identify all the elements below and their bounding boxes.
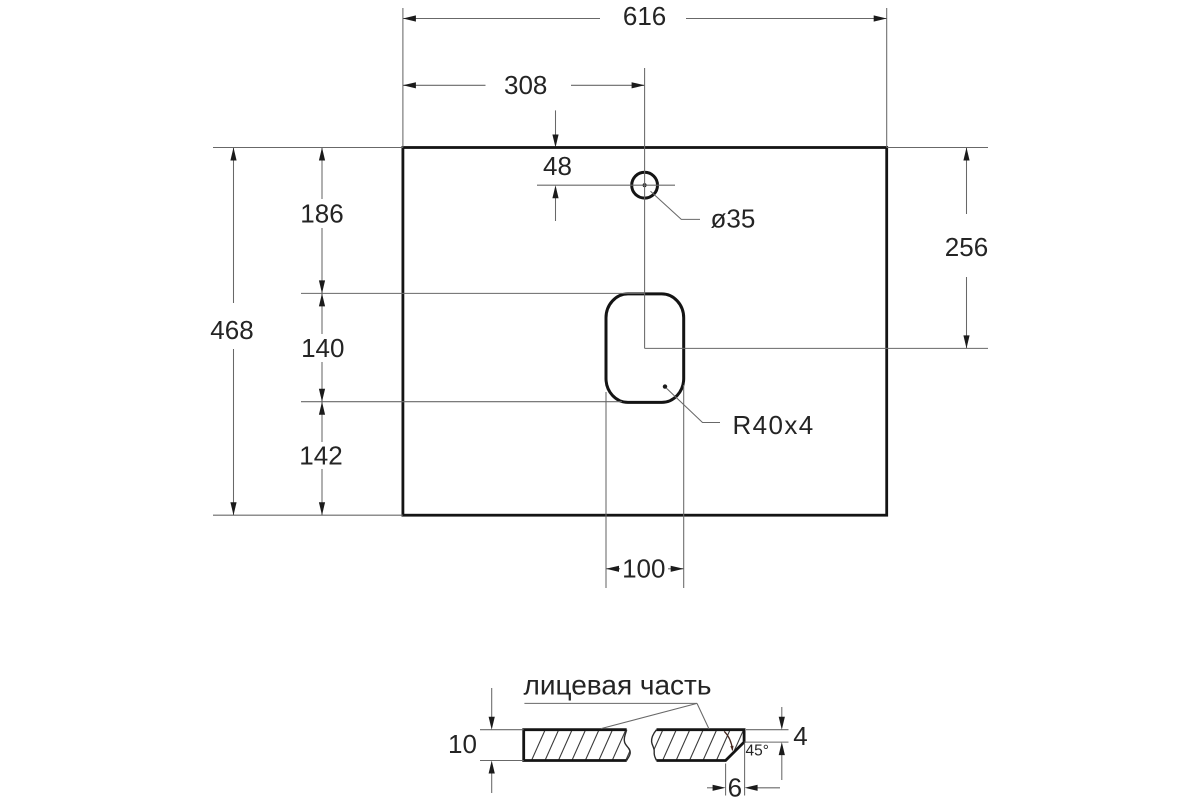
label ø35: [711, 204, 756, 234]
extension lines for 4: [744, 730, 788, 742]
dimension 4: [779, 707, 808, 780]
section right slab outline with 45deg chamfer: [652, 730, 745, 761]
svg-text:256: 256: [945, 232, 988, 262]
leader line for R40x4: [666, 388, 720, 423]
dimension 142: [299, 402, 342, 516]
leader underline for лицевая часть: [524, 702, 697, 704]
dimension 48: [543, 110, 572, 221]
extension line panel top-right: [887, 147, 988, 149]
svg-text:616: 616: [623, 1, 666, 31]
svg-text:R40x4: R40x4: [733, 410, 815, 440]
hole horizontal centerline (48 reference): [537, 184, 675, 186]
dimension 100: [606, 554, 684, 584]
extension line cutout bottom tangent: [301, 401, 622, 403]
centerline from hole to right 256 dimension: [645, 347, 988, 349]
svg-text:142: 142: [299, 441, 342, 471]
svg-text:100: 100: [622, 554, 665, 584]
extension line cutout top tangent: [301, 292, 645, 294]
svg-text:ø35: ø35: [711, 204, 756, 234]
label R40x4: [733, 410, 815, 440]
svg-text:48: 48: [543, 151, 572, 181]
leader line for ø35: [651, 191, 701, 219]
dimension 6: [707, 772, 780, 800]
section left slab outline: [524, 730, 631, 761]
dimension 10: [448, 688, 495, 793]
faucet hole center dot: [643, 183, 647, 187]
dimension 468: [210, 148, 253, 516]
countertop panel outline: [403, 148, 887, 516]
svg-text:45°: 45°: [746, 743, 769, 760]
svg-text:468: 468: [210, 315, 253, 345]
extension line right of top dimensions: [886, 8, 888, 148]
drain cutout R40x4 outline: [606, 294, 684, 403]
svg-text:186: 186: [300, 199, 343, 229]
section right slab hatching: [648, 728, 771, 763]
leader branch to right slab face: [697, 703, 709, 729]
leader dot on cutout edge: [663, 384, 667, 388]
faucet hole ø35 outline: [632, 172, 658, 198]
extension line left of top dimensions: [402, 8, 404, 148]
svg-text:10: 10: [448, 729, 477, 759]
extension line cutout right tangent: [683, 385, 685, 588]
dimension 140: [301, 293, 344, 401]
extension lines for 10: [480, 730, 524, 761]
svg-text:6: 6: [728, 772, 742, 800]
leader branch to left slab face: [601, 703, 697, 728]
svg-text:4: 4: [793, 721, 807, 751]
svg-text:140: 140: [301, 333, 344, 363]
extension line cutout left tangent: [605, 392, 607, 588]
extension line panel top-left: [213, 147, 403, 149]
45 degree angle arc with arrow: [724, 731, 733, 751]
extension lines for 6: [726, 744, 745, 796]
dimension 308: [403, 70, 645, 100]
label 45°: [746, 743, 769, 760]
dimension 256: [945, 148, 988, 349]
svg-text:308: 308: [504, 70, 547, 100]
hole vertical centerline: [644, 68, 646, 348]
dimension 616: [403, 1, 887, 31]
section left slab hatching: [531, 728, 654, 763]
dimension 186: [300, 148, 343, 294]
extension line panel bottom-left: [213, 514, 403, 516]
svg-text:лицевая часть: лицевая часть: [524, 670, 712, 701]
label лицевая часть: [524, 670, 712, 701]
